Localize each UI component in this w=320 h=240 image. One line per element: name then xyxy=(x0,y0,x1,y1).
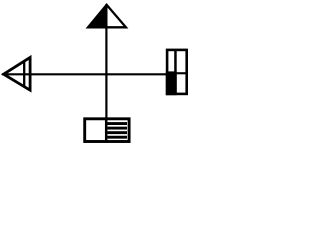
wire horizontal (A2 to A3) xyxy=(2,73,167,75)
symbol A4 (bottom): box with hatched right half xyxy=(85,118,129,143)
wire vertical (A1 to A4) xyxy=(105,4,107,119)
symbol A2 (left): left-pointing triangle with inner bar xyxy=(4,57,31,90)
symbol A3 (right): quartered box, lower-left quadrant filled xyxy=(166,49,188,95)
symbol A1 (top): half-filled up triangle xyxy=(88,5,126,28)
